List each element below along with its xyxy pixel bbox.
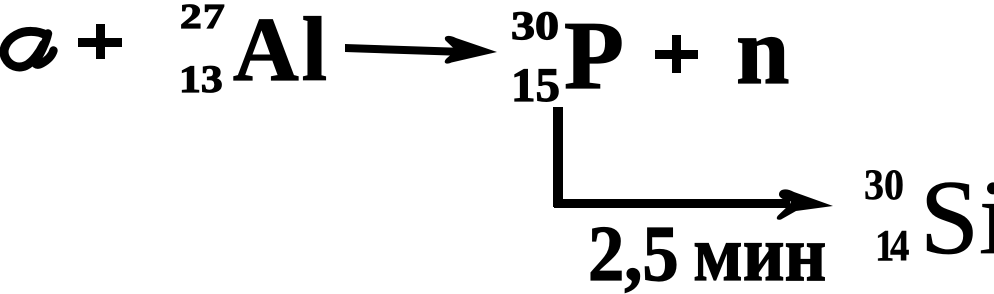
node P atomic number 15 bbox=[511, 62, 560, 110]
node Si atomic number 14 bbox=[875, 224, 905, 268]
node Si: silicon-30 decay product bbox=[920, 165, 994, 271]
node Si mass number 30 bbox=[864, 164, 904, 207]
node Al mass number 27 bbox=[180, 0, 226, 34]
node P: phosphorus-30 product nucleus bbox=[564, 7, 624, 105]
node half-life label 2,5 min bbox=[588, 214, 826, 294]
node P mass number 30 bbox=[511, 6, 559, 46]
node Al: aluminium target nucleus bbox=[233, 4, 330, 95]
node n: emitted neutron bbox=[736, 3, 789, 99]
node Al atomic number 13 bbox=[179, 60, 223, 99]
